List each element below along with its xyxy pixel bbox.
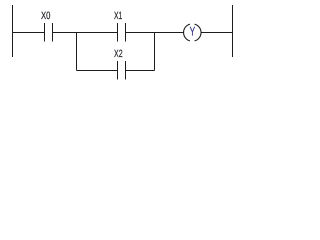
svg-text:Y: Y	[190, 25, 196, 39]
branch right vertical wire	[154, 33, 156, 71]
branch left vertical wire	[76, 33, 78, 71]
right power rail	[232, 5, 234, 57]
svg-text:X1: X1	[114, 10, 122, 22]
contact X2	[118, 61, 126, 80]
branch bottom wire left of X2	[77, 70, 118, 72]
left power rail	[12, 5, 14, 57]
wire left rail to X0	[13, 32, 45, 34]
wire X1 to coil (through branch node)	[126, 32, 184, 34]
branch bottom wire right of X2	[126, 70, 155, 72]
wire X0 to X1 (through branch node)	[53, 32, 118, 34]
wire coil to right rail	[201, 32, 233, 34]
svg-text:X2: X2	[114, 48, 123, 60]
contact X1	[118, 23, 126, 42]
svg-text:X0: X0	[41, 10, 51, 22]
contact X0	[45, 23, 53, 42]
coil Y arcs	[184, 24, 201, 41]
